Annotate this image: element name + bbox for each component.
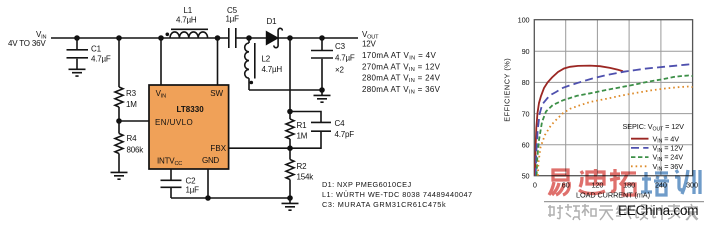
svg-text:C1: C1 (91, 45, 102, 54)
svg-text:1M: 1M (126, 100, 137, 109)
resistor R2 (286, 148, 314, 198)
node junction L2 top (246, 35, 252, 41)
ground R4 (111, 172, 128, 179)
chart y-axis labels (518, 15, 530, 180)
wire main top rail right of C5 (236, 37, 358, 39)
svg-text:LT8330: LT8330 (177, 105, 205, 114)
capacitor C2 (161, 177, 200, 199)
capacitor C3 (311, 38, 355, 90)
svg-text:×2: ×2 (335, 66, 344, 75)
svg-text:EEChina.com: EEChina.com (618, 203, 698, 218)
node junction C3 ground (319, 87, 325, 93)
node VOUT label block (362, 30, 441, 95)
note component values (322, 180, 472, 209)
wire D1 to feedback divider (289, 38, 291, 112)
svg-text:270mA AT VIN = 12V: 270mA AT VIN = 12V (362, 62, 441, 73)
svg-text:806k: 806k (127, 146, 145, 155)
capacitor C5 (226, 6, 240, 48)
wire FBX (229, 147, 290, 149)
inductor L1 (166, 6, 209, 38)
resistor R3 (115, 38, 137, 121)
node junction FBX (287, 145, 293, 151)
svg-text:D1: D1 (267, 17, 278, 26)
node junction SW (node A) (215, 35, 221, 41)
chart gridlines (534, 20, 692, 176)
chart border (534, 20, 692, 176)
svg-text:280mA AT VIN = 36V: 280mA AT VIN = 36V (362, 85, 441, 96)
node junction C3 (319, 35, 325, 41)
svg-text:FBX: FBX (210, 144, 226, 153)
curve VIN=36V orange dotted (538, 87, 693, 176)
watermark gray slogan characters (548, 204, 698, 220)
svg-text:280mA AT VIN = 24V: 280mA AT VIN = 24V (362, 74, 441, 85)
svg-text:C3: MURATA GRM31CR61C475k: C3: MURATA GRM31CR61C475k (322, 200, 446, 209)
svg-text:0: 0 (533, 181, 537, 190)
svg-text:R3: R3 (126, 89, 137, 98)
svg-text:VIN = 36V: VIN = 36V (653, 162, 684, 172)
wire SW pin (217, 38, 219, 85)
node junction R3 (116, 35, 122, 41)
svg-text:C2: C2 (186, 177, 197, 186)
IC U1 LT8330 regulator (149, 85, 229, 169)
svg-text:EFFICIENCY (%): EFFICIENCY (%) (503, 58, 512, 122)
svg-text:L1: L1 (184, 6, 193, 15)
wire INTVCC pin (170, 169, 172, 180)
svg-text:L2: L2 (262, 55, 271, 64)
node junction R1 top (287, 109, 293, 115)
wire bottom ground rail (171, 197, 290, 199)
svg-text:GND: GND (202, 156, 219, 165)
node junction VIN pin (158, 35, 164, 41)
wire VIN pin (160, 38, 162, 85)
node junction R2 bottom rail (287, 195, 293, 201)
svg-text:154k: 154k (297, 173, 315, 182)
wire main top rail left of C5 (51, 37, 229, 39)
node junction D1 cathode / feedback (287, 35, 293, 41)
svg-text:60: 60 (522, 141, 530, 150)
node junction R3/R4/EN (116, 118, 122, 124)
ground C1 (69, 69, 86, 76)
svg-text:4.7µF: 4.7µF (335, 54, 355, 63)
svg-text:1M: 1M (297, 132, 308, 141)
svg-text:4.7pF: 4.7pF (335, 130, 355, 139)
watermark EEChina.com (618, 203, 698, 218)
ground C3/L2 (314, 90, 331, 102)
legend (623, 122, 685, 172)
chart x-axis title (576, 191, 650, 200)
svg-text:D1: NXP PMEG6010CEJ: D1: NXP PMEG6010CEJ (322, 180, 411, 189)
svg-text:SW: SW (210, 89, 223, 98)
svg-text:50: 50 (522, 171, 530, 180)
capacitor C1 (67, 38, 111, 69)
svg-text:EN/UVLO: EN/UVLO (155, 118, 193, 127)
curve VIN=4V red (535, 66, 623, 176)
svg-text:C3: C3 (335, 42, 346, 51)
inductor L2 (245, 38, 283, 90)
chart x-axis labels (533, 181, 698, 190)
svg-text:R1: R1 (297, 121, 308, 130)
diode D1 (266, 17, 282, 48)
wire L2 bottom to ground rail (249, 89, 322, 91)
resistor R4 (115, 121, 144, 172)
svg-text:170mA AT VIN = 4V: 170mA AT VIN = 4V (362, 51, 436, 62)
svg-text:R2: R2 (297, 162, 308, 171)
wire EN/UVLO (119, 120, 149, 122)
chart y-axis title (503, 58, 512, 122)
svg-text:100: 100 (518, 15, 530, 24)
curve VIN=24V green dashed (537, 76, 693, 176)
svg-text:12V: 12V (362, 40, 376, 49)
svg-text:1µF: 1µF (226, 15, 240, 24)
svg-text:4.7µF: 4.7µF (91, 55, 111, 64)
svg-text:C4: C4 (335, 119, 346, 128)
node junction C1 (74, 35, 80, 41)
svg-text:SEPIC: VOUT = 12V: SEPIC: VOUT = 12V (623, 122, 685, 132)
node VIN label (8, 30, 46, 48)
resistor R1 (286, 112, 308, 149)
svg-text:4V TO 36V: 4V TO 36V (8, 39, 46, 48)
svg-text:R4: R4 (127, 134, 138, 143)
svg-text:80: 80 (522, 78, 530, 87)
svg-text:1µF: 1µF (186, 186, 200, 195)
svg-text:4.7µH: 4.7µH (176, 16, 197, 25)
capacitor C4 (290, 112, 354, 149)
node junction GND pin rail (205, 195, 211, 201)
wire GND pin (207, 169, 209, 198)
svg-text:300: 300 (686, 181, 698, 190)
svg-text:L1: WÜRTH WE-TDC 8038 74489440: L1: WÜRTH WE-TDC 8038 74489440047 (322, 190, 472, 199)
svg-text:70: 70 (522, 109, 530, 118)
ground main (282, 198, 299, 210)
watermark big characters (drawn glyphs) (549, 169, 700, 195)
svg-text:90: 90 (522, 47, 530, 56)
svg-text:4.7µH: 4.7µH (262, 65, 283, 74)
curve VIN=12V blue dashed (536, 64, 693, 176)
watermark divider line (544, 201, 704, 203)
